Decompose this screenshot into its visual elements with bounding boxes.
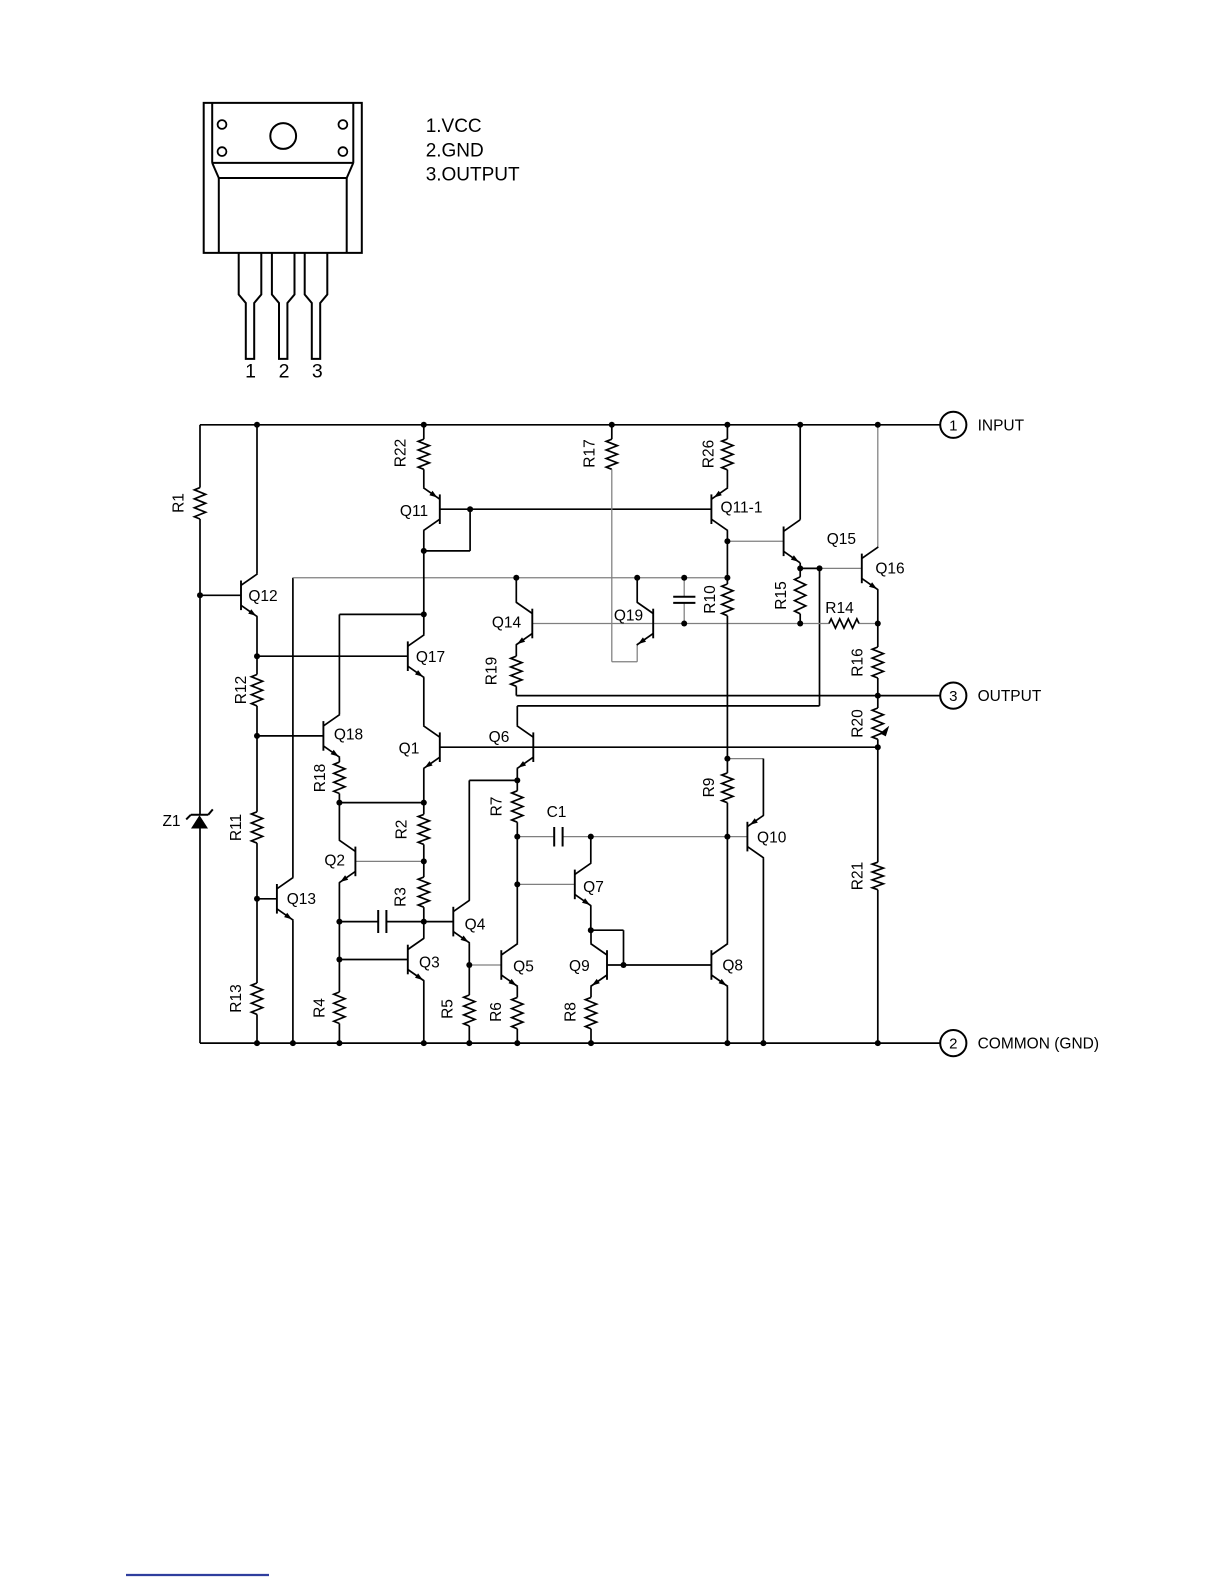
svg-text:R22: R22 bbox=[393, 439, 410, 467]
svg-text:Q5: Q5 bbox=[513, 959, 534, 976]
svg-text:R5: R5 bbox=[440, 999, 457, 1019]
svg-text:Q3: Q3 bbox=[419, 955, 440, 972]
svg-text:R12: R12 bbox=[233, 676, 250, 704]
svg-text:R20: R20 bbox=[850, 709, 867, 738]
svg-text:R18: R18 bbox=[312, 764, 329, 792]
svg-text:Q2: Q2 bbox=[324, 853, 345, 870]
svg-text:Q8: Q8 bbox=[722, 958, 743, 975]
svg-text:R26: R26 bbox=[701, 440, 718, 468]
svg-text:R19: R19 bbox=[484, 657, 501, 685]
svg-text:R13: R13 bbox=[228, 984, 245, 1012]
svg-text:Q15: Q15 bbox=[827, 531, 856, 548]
svg-text:R14: R14 bbox=[825, 600, 854, 617]
svg-text:R15: R15 bbox=[773, 581, 790, 609]
svg-text:1: 1 bbox=[949, 417, 957, 434]
svg-text:R21: R21 bbox=[850, 862, 867, 890]
svg-text:R3: R3 bbox=[393, 887, 410, 907]
svg-text:COMMON (GND): COMMON (GND) bbox=[978, 1036, 1099, 1053]
svg-text:R8: R8 bbox=[563, 1002, 580, 1022]
svg-text:Q19: Q19 bbox=[614, 608, 643, 625]
svg-text:R7: R7 bbox=[489, 797, 506, 817]
svg-text:R11: R11 bbox=[228, 814, 245, 841]
svg-text:2: 2 bbox=[949, 1036, 957, 1053]
svg-text:Q13: Q13 bbox=[287, 891, 316, 908]
svg-text:R9: R9 bbox=[701, 778, 718, 798]
svg-text:Z1: Z1 bbox=[162, 813, 180, 830]
svg-text:Q18: Q18 bbox=[334, 727, 363, 744]
svg-text:Q6: Q6 bbox=[489, 729, 510, 746]
svg-text:1: 1 bbox=[245, 361, 256, 383]
svg-text:3.OUTPUT: 3.OUTPUT bbox=[426, 165, 520, 186]
svg-text:2.GND: 2.GND bbox=[426, 140, 484, 161]
svg-text:R17: R17 bbox=[582, 439, 599, 467]
svg-text:R2: R2 bbox=[394, 820, 411, 840]
svg-text:Q10: Q10 bbox=[757, 830, 787, 847]
svg-text:2: 2 bbox=[279, 361, 290, 383]
svg-text:OUTPUT: OUTPUT bbox=[978, 688, 1042, 705]
svg-text:Q11: Q11 bbox=[400, 503, 428, 520]
svg-text:R1: R1 bbox=[171, 493, 188, 513]
svg-text:3: 3 bbox=[949, 688, 957, 705]
svg-text:Q11-1: Q11-1 bbox=[721, 500, 763, 517]
svg-text:R6: R6 bbox=[488, 1002, 505, 1022]
svg-text:Q14: Q14 bbox=[492, 615, 522, 632]
svg-text:Q16: Q16 bbox=[875, 561, 904, 578]
svg-text:R16: R16 bbox=[850, 648, 867, 676]
svg-text:R4: R4 bbox=[312, 998, 329, 1018]
svg-text:Q1: Q1 bbox=[399, 741, 420, 758]
svg-text:C1: C1 bbox=[547, 804, 567, 821]
svg-text:Q7: Q7 bbox=[583, 879, 604, 896]
svg-text:1.VCC: 1.VCC bbox=[426, 116, 482, 137]
svg-text:3: 3 bbox=[312, 361, 323, 383]
svg-text:Q4: Q4 bbox=[465, 917, 486, 934]
svg-text:Q12: Q12 bbox=[248, 588, 277, 605]
svg-text:Q9: Q9 bbox=[569, 958, 590, 975]
svg-text:INPUT: INPUT bbox=[978, 417, 1025, 434]
svg-text:Q17: Q17 bbox=[416, 649, 445, 666]
svg-text:R10: R10 bbox=[702, 585, 719, 614]
